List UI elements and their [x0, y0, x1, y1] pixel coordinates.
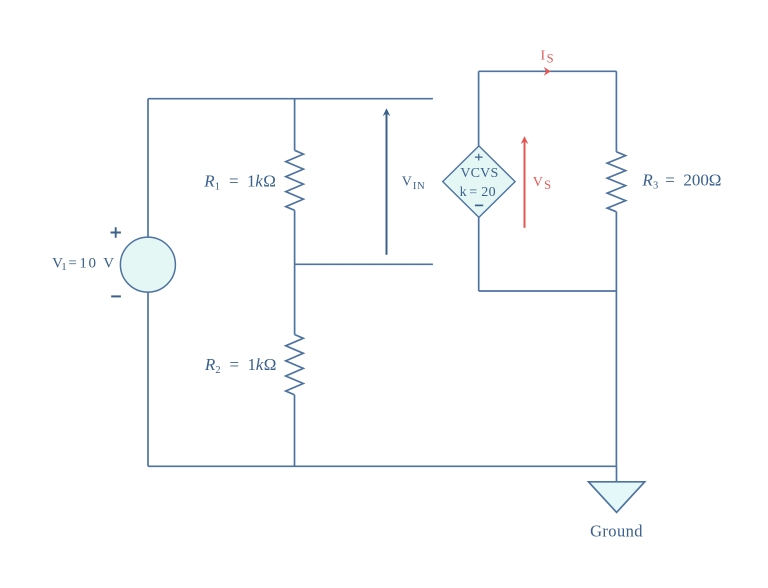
wire ground stem — [616, 466, 618, 482]
svg-text:IS: IS — [541, 49, 554, 66]
svg-text:R3=200Ω: R3=200Ω — [641, 170, 721, 191]
wire middle vertical R1 top lead — [294, 99, 296, 151]
VS measurement arrow — [524, 141, 526, 227]
resistor R2 — [286, 335, 304, 395]
svg-text:VIN: VIN — [402, 175, 426, 192]
wire left vertical V1 top lead — [147, 99, 149, 238]
resistor R3 — [607, 152, 625, 212]
wire R3 bottom lead down to bottom wire — [615, 212, 617, 466]
V1 minus sign — [111, 295, 121, 297]
VCVS minus sign — [475, 204, 483, 206]
wire VCVS top lead — [478, 71, 480, 146]
IS current arrowhead — [544, 67, 551, 76]
wire left vertical V1 bottom lead — [147, 292, 149, 466]
wire VCVS loop bottom horizontal — [479, 290, 617, 292]
resistor R1 — [286, 150, 304, 210]
svg-text:VS: VS — [533, 175, 551, 192]
V1 plus sign — [111, 227, 121, 238]
dependent source VCVS diamond — [443, 146, 515, 218]
VCVS plus sign — [475, 154, 483, 161]
wire R3 top lead — [615, 71, 617, 152]
wire VCVS bottom lead — [478, 217, 480, 291]
wire VCVS loop top horizontal — [479, 70, 617, 72]
VIN measurement arrow — [386, 114, 388, 255]
svg-text:VCVS: VCVS — [460, 166, 498, 181]
wire bottom horizontal — [148, 465, 617, 467]
wire middle horizontal (VIN minus node) — [295, 263, 433, 265]
wire top horizontal from V1 branch to VIN node — [148, 98, 433, 100]
ground — [589, 482, 645, 513]
voltage source V1 — [120, 237, 175, 292]
svg-text:R2=1kΩ: R2=1kΩ — [204, 355, 277, 376]
wire R1 bottom lead to R2 — [294, 210, 296, 334]
svg-text:R1=1kΩ: R1=1kΩ — [203, 171, 276, 192]
svg-text:Ground: Ground — [590, 522, 643, 541]
wire R2 bottom lead — [294, 395, 296, 467]
svg-text:V1=10V: V1=10V — [52, 255, 114, 273]
